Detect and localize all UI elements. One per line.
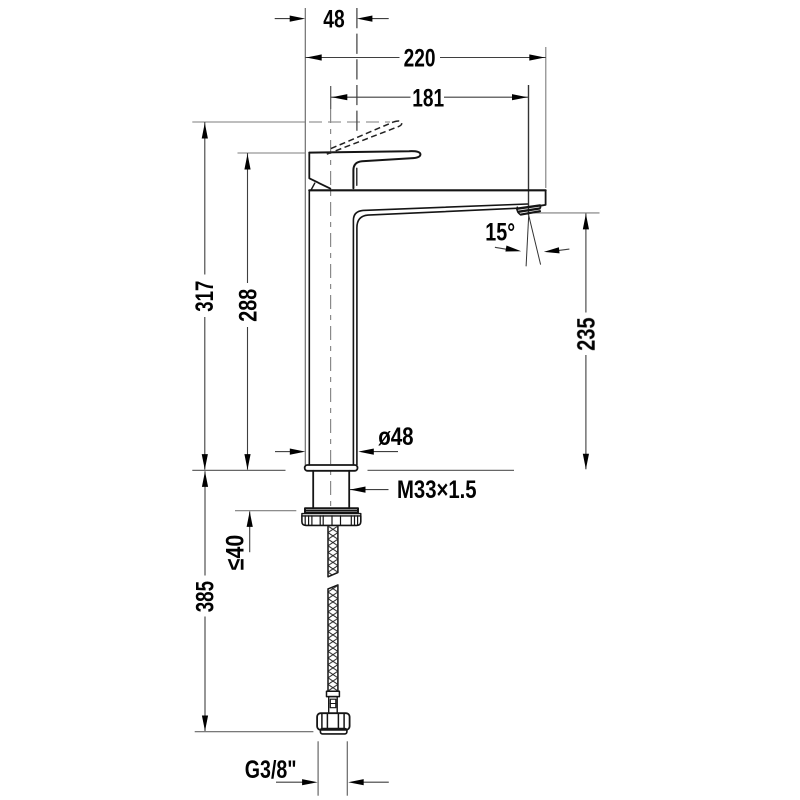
svg-text:≤40: ≤40 [222,535,250,571]
svg-text:G3/8": G3/8" [245,756,297,784]
svg-text:235: 235 [573,317,601,350]
svg-text:181: 181 [412,84,444,112]
svg-text:M33×1.5: M33×1.5 [397,476,477,504]
svg-text:15°: 15° [485,218,515,246]
svg-text:385: 385 [192,581,220,612]
svg-text:48: 48 [323,6,344,34]
svg-text:ø48: ø48 [378,423,413,451]
svg-text:220: 220 [404,45,436,73]
svg-text:317: 317 [191,281,219,312]
svg-text:288: 288 [235,289,263,322]
